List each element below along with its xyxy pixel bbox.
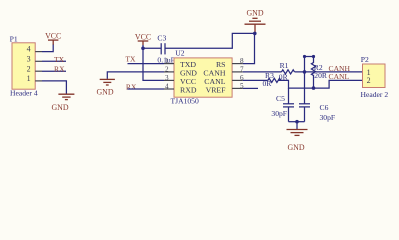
ground (bottom right) [287, 130, 308, 153]
power VCC (middle) [135, 33, 151, 46]
node gnd junction [253, 32, 257, 36]
svg-text:U2: U2 [175, 49, 184, 58]
svg-text:CANL: CANL [329, 72, 350, 81]
svg-text:30pF: 30pF [320, 113, 336, 122]
svg-text:RXD: RXD [180, 86, 197, 95]
svg-text:GND: GND [246, 8, 263, 17]
svg-text:VCC: VCC [45, 31, 61, 40]
node R2/CANL junction [312, 86, 316, 90]
wire CANH (pin7 to P2 pin1) [243, 71, 282, 73]
svg-text:3: 3 [27, 54, 31, 63]
power VCC (left) [45, 31, 61, 45]
resistor R1 [279, 61, 295, 81]
wire RX (left) [42, 70, 66, 72]
wire RX to U2 pin4 [128, 88, 165, 90]
wire VREF stub [243, 87, 258, 89]
svg-text:1: 1 [27, 74, 31, 83]
pin 7 CANH [232, 71, 243, 73]
svg-text:1: 1 [165, 57, 169, 65]
wire P1 pin4 to VCC [42, 45, 53, 52]
svg-text:TX: TX [125, 55, 136, 64]
svg-text:2: 2 [165, 66, 169, 74]
wire VCC down to junction [142, 45, 144, 48]
svg-text:TX: TX [54, 55, 65, 64]
connector P2 [361, 55, 389, 99]
svg-text:Header 2: Header 2 [361, 90, 389, 99]
pin 3 VCC [164, 79, 174, 81]
pin 5 VREF [232, 87, 243, 89]
svg-text:C5: C5 [276, 94, 285, 103]
ground (below P1) [51, 94, 74, 112]
node VCC junction [141, 47, 145, 51]
wire caps to ground [289, 121, 305, 123]
svg-text:VCC: VCC [135, 33, 151, 42]
wire junction to C3 [143, 47, 161, 49]
svg-text:R1: R1 [280, 61, 289, 70]
resistor R3 [263, 71, 275, 88]
op-amp U2 TJA1050 [164, 49, 244, 106]
wire CANL (pin6 through R3, jog down, back up to P2 pin2) [243, 79, 268, 81]
resistor R2 [311, 57, 327, 89]
wire U2 pin2 to ground [107, 72, 164, 79]
pin 6 CANL [232, 79, 243, 81]
svg-text:0R: 0R [263, 79, 273, 88]
svg-text:TJA1050: TJA1050 [171, 96, 199, 105]
wire TX (left) [42, 60, 66, 62]
svg-text:GND: GND [51, 103, 68, 112]
svg-text:P1: P1 [10, 34, 18, 43]
connector P1 [10, 34, 42, 97]
svg-text:RX: RX [54, 65, 65, 74]
svg-text:2: 2 [27, 64, 31, 73]
pin 8 RS [232, 63, 243, 65]
svg-text:20R: 20R [314, 71, 328, 80]
svg-text:8: 8 [240, 57, 244, 65]
capacitor C5 [271, 88, 294, 122]
node CANH junction [303, 70, 307, 74]
capacitor C3 [157, 33, 175, 64]
pin 1 TXD [164, 63, 174, 65]
svg-text:4: 4 [27, 45, 31, 54]
wire jumper R2 top [305, 57, 314, 72]
ground (top, inverted) [245, 8, 266, 33]
wire gnd junction to U2 pin8 RS [243, 33, 255, 63]
svg-text:30pF: 30pF [271, 109, 287, 118]
svg-text:GND: GND [287, 143, 304, 152]
svg-text:2: 2 [367, 76, 371, 85]
svg-text:C6: C6 [320, 103, 329, 112]
svg-text:P2: P2 [361, 55, 369, 64]
svg-text:C3: C3 [157, 33, 166, 42]
wire VCC branch down to U2 pin3 [143, 48, 164, 80]
svg-text:3: 3 [165, 74, 169, 82]
wire P1 pin1 to ground [42, 81, 66, 94]
wire C3 to top gnd [165, 33, 255, 48]
wire TX to U2 pin1 [128, 63, 165, 65]
svg-text:Header 4: Header 4 [10, 89, 38, 98]
pin 4 RXD [164, 88, 174, 90]
capacitor C6 [299, 72, 335, 122]
svg-text:4: 4 [165, 83, 169, 91]
ground (left of U2) [96, 79, 114, 96]
svg-text:GND: GND [96, 88, 113, 97]
svg-text:VREF: VREF [206, 86, 227, 95]
pin 2 GND [164, 71, 174, 73]
svg-text:RX: RX [126, 83, 137, 92]
